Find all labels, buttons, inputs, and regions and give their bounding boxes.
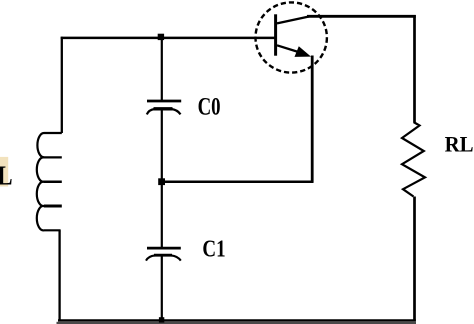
svg-text:C0: C0 <box>198 91 221 120</box>
svg-text:L: L <box>0 161 13 191</box>
svg-text:RL: RL <box>445 131 474 156</box>
svg-text:C1: C1 <box>202 237 225 263</box>
